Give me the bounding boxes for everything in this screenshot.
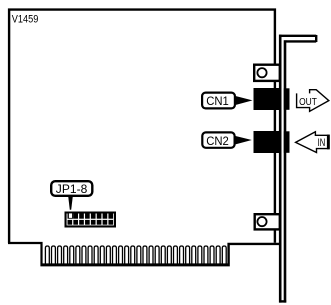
arrow IN [296, 132, 329, 153]
arrow OUT [297, 90, 329, 112]
connector CN2 nub [284, 131, 290, 153]
svg-text:CN1: CN1 [206, 94, 229, 108]
label CN2 tail [234, 136, 252, 145]
top screw bracket [254, 65, 280, 81]
label JP1-8 callout box [51, 181, 92, 196]
svg-text:IN: IN [318, 137, 326, 149]
connector CN2 block [254, 131, 282, 153]
svg-text:V1459: V1459 [12, 14, 39, 26]
top screw hole [257, 68, 266, 77]
arrow IN end cap [327, 135, 330, 150]
label CN2 callout box [202, 132, 234, 147]
jumper block pin1 open cell [69, 213, 72, 218]
label CN1 tail [235, 96, 253, 105]
svg-text:OUT: OUT [299, 96, 317, 108]
bracket right line [284, 40, 287, 302]
edge connector comb teeth [45, 246, 226, 264]
label JP1-8 tail [68, 196, 73, 210]
bottom screw hole [257, 217, 266, 226]
label CN1 callout box [202, 93, 235, 109]
bracket bottom cap [279, 300, 286, 302]
bracket left line [279, 35, 282, 303]
jumper block pins [68, 213, 114, 225]
jumper block grid interior [67, 214, 114, 226]
bottom screw bracket [255, 214, 280, 229]
bracket top tab [279, 35, 316, 42]
svg-text:CN2: CN2 [206, 134, 229, 148]
jumper block JP1-8 body [65, 212, 117, 228]
svg-text:JP1-8: JP1-8 [56, 182, 88, 196]
connector CN1 block [254, 88, 282, 110]
card outline [8, 10, 282, 264]
connector CN1 nub [284, 88, 290, 110]
edge connector base bar [40, 263, 229, 266]
